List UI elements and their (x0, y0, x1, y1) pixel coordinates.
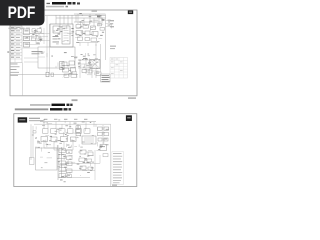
right side ticks (106, 20, 115, 27)
first row of component boxes (43, 129, 91, 133)
label block lower right top page (101, 74, 111, 82)
converging wires (44, 142, 73, 151)
tiny text top right of frame (92, 10, 98, 12)
black page-code box bottom page (126, 115, 132, 121)
transformer column (60, 62, 65, 70)
parts list block right bottom (112, 152, 124, 185)
vertical spine of components (58, 145, 72, 180)
bottom header line 1 (30, 104, 73, 106)
text right of logo (29, 118, 44, 122)
left entry wires bottom page (31, 124, 36, 160)
top inner bus line (45, 14, 106, 16)
black page-code box top-right (128, 10, 133, 14)
PHILIPS logo box (18, 117, 27, 122)
scatter detail marks (26, 13, 114, 178)
dense ticks in rectifier cluster (57, 28, 74, 36)
bottom title line 2 (15, 108, 71, 110)
bottom page schematic frame (14, 114, 137, 187)
right mid text (110, 46, 116, 47)
main bus lines bottom page (40, 122, 96, 129)
bus top labels (44, 119, 87, 120)
bridge rectifier box (50, 24, 73, 47)
svg-text:PDF: PDF (8, 4, 36, 22)
left connector table (10, 26, 22, 63)
top page header line 2 (46, 6, 68, 8)
PDF badge (0, 0, 45, 26)
tiny text under badge (9, 28, 31, 30)
top page footer page number (72, 99, 78, 101)
large empty box lower-left (36, 148, 58, 170)
left margin F tick (7, 51, 9, 52)
lower center dense cluster (62, 44, 101, 78)
secondary big box (38, 47, 75, 68)
top page left-center wires (26, 28, 48, 45)
top page long connecting wires (23, 16, 50, 74)
right components bottom page (96, 124, 109, 157)
page label bottom-right of top frame (128, 97, 136, 99)
top page header line 1 (47, 2, 81, 5)
fuse / input component boxes column (24, 29, 30, 47)
AC input label text (32, 51, 43, 52)
parts list caption bottom page (112, 185, 117, 186)
top page schematic frame (10, 10, 137, 96)
extra top page cluster marks (78, 53, 99, 75)
bus drop wires (56, 15, 106, 61)
dense stack left of hatched box bottom page (76, 126, 81, 136)
bottom bus line (10, 63, 78, 96)
second row components (41, 136, 96, 144)
text rows under table (11, 64, 20, 76)
small filter components (30, 29, 44, 41)
left lower connector bottom page (30, 158, 66, 183)
horizontal distribution lines lower (58, 150, 100, 180)
extra bottom page cluster marks (38, 126, 85, 176)
bottom page lower-right extra components (78, 150, 94, 171)
inner divider line right (110, 124, 112, 186)
light parts table right (110, 58, 128, 79)
center dense converter cluster (56, 14, 106, 46)
